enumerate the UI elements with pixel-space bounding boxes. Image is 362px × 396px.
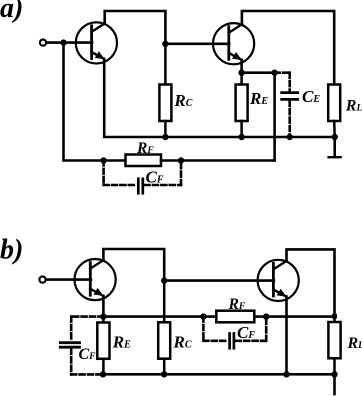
wire Q2 collector to RL a xyxy=(242,11,334,85)
transistor Q4 xyxy=(258,260,299,301)
wire Q4 collector to RL b xyxy=(287,249,335,316)
svg-text:a): a) xyxy=(0,0,23,24)
capacitor CF b-mid (dashed) xyxy=(203,317,266,341)
node E2 (dot) xyxy=(238,70,244,76)
resistor RL a xyxy=(328,85,340,122)
label a) xyxy=(0,0,23,24)
wire feedback left leg xyxy=(64,43,104,161)
resistor RL b xyxy=(333,316,336,322)
wire input to Q1 base xyxy=(46,41,92,44)
node ground a (dot) xyxy=(332,134,338,140)
node input a (junction dot) xyxy=(60,39,66,45)
input terminal b xyxy=(39,277,45,283)
input terminal a xyxy=(40,40,46,46)
node RFb-left (dot) xyxy=(200,313,206,319)
wire input to Q3 base xyxy=(46,278,91,281)
node E3 (dot) xyxy=(100,313,106,319)
bottom rail b xyxy=(103,373,335,376)
resistor RC a xyxy=(164,44,167,85)
wire Q3 emitter xyxy=(102,296,105,317)
capacitor CF b-left (dashed) xyxy=(71,317,103,375)
wire Q3 collector to node D xyxy=(103,249,164,281)
resistor RE b xyxy=(102,317,105,323)
wire Q1 emitter + bottom rail a xyxy=(104,59,335,137)
node B (dot) xyxy=(162,41,168,47)
svg-text:b): b) xyxy=(0,235,23,266)
transistor Q1 xyxy=(76,22,117,63)
node D (dot) xyxy=(161,277,167,283)
node RE-bottom xyxy=(238,134,244,140)
wire node D to Q4 base xyxy=(164,279,274,282)
node RFb-right (dot) xyxy=(263,313,269,319)
node ground b (dot) xyxy=(331,371,337,377)
transistor Q2 xyxy=(213,23,254,64)
node RC-bottom xyxy=(162,134,168,140)
node RLb-top (square dot) xyxy=(332,314,337,319)
node F2 (dot) xyxy=(271,70,277,76)
node CE-bottom xyxy=(287,134,293,140)
wire emitter row a xyxy=(242,71,275,74)
label b) xyxy=(0,235,23,266)
node REb-bottom xyxy=(100,371,106,377)
node RCb-bottom xyxy=(161,371,167,377)
node E4-bottom xyxy=(283,371,289,377)
transistor Q3 xyxy=(75,259,116,300)
wire emitter row b xyxy=(103,315,334,318)
node RF-left (dot) xyxy=(100,157,106,163)
wire Q1 collector to node B xyxy=(105,11,166,44)
capacitor CE (dashed) xyxy=(275,73,290,137)
wire feedback right leg xyxy=(273,73,276,161)
wire node B to Q2 base xyxy=(165,42,229,45)
ground a xyxy=(333,137,336,157)
node RF-right (dot) xyxy=(178,157,184,163)
ground b stub xyxy=(333,374,336,394)
capacitor CF a (dashed) xyxy=(104,161,181,186)
resistor RC b xyxy=(163,281,166,323)
wire Q2 emitter xyxy=(240,60,243,73)
resistor RF a xyxy=(104,159,126,162)
wire Q4 emitter to rail xyxy=(285,297,288,375)
resistor RE a xyxy=(240,73,243,85)
resistor RF b xyxy=(216,311,254,323)
